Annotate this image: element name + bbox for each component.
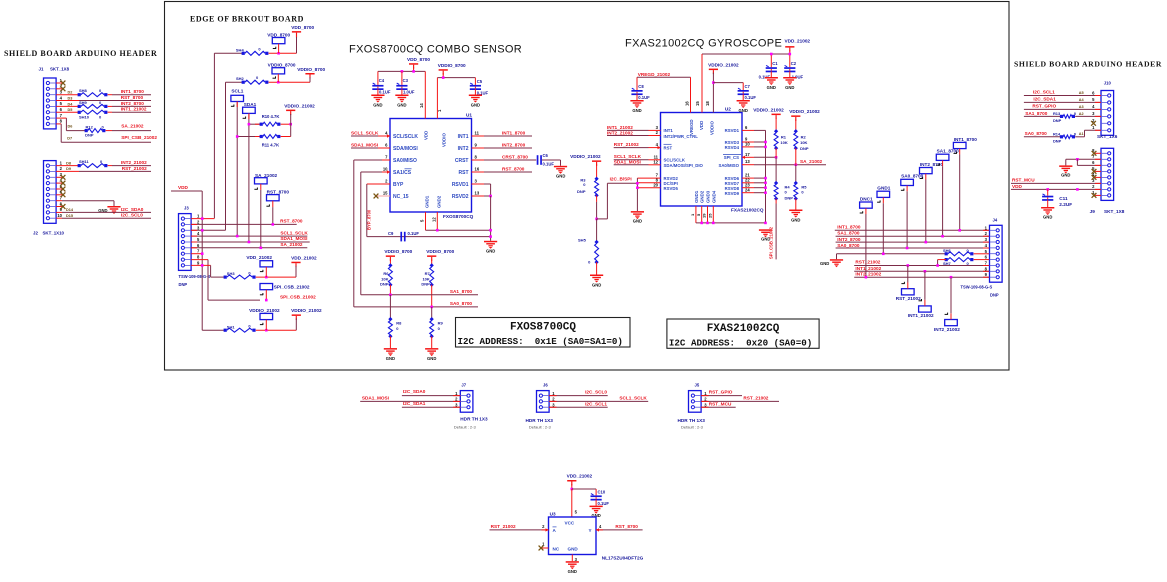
svg-text:RST_8700: RST_8700 (502, 166, 525, 171)
netbox SA_21002 (254, 173, 277, 248)
svg-text:GND: GND (486, 249, 495, 254)
power flag VDDIO_21002 R1 (753, 108, 784, 132)
svg-text:D2: D2 (68, 91, 73, 95)
J10 pin numbers (1092, 90, 1095, 130)
wire J10 pin5 I2C_SDA1 (1024, 97, 1101, 103)
svg-text:VDD_8700: VDD_8700 (407, 57, 430, 62)
svg-text:GND3: GND3 (706, 190, 711, 203)
wire SH2 left (226, 82, 244, 230)
connector J3 (179, 206, 192, 271)
ground under C11 (1041, 207, 1054, 220)
svg-text:SHIELD BOARD ARDUINO HEADER: SHIELD BOARD ARDUINO HEADER (4, 49, 157, 58)
svg-text:INT1_21002: INT1_21002 (607, 125, 633, 130)
wire RSVD collector (742, 130, 767, 223)
wire U2 pins 7 8 20 (636, 178, 660, 211)
J2 pin 4 no-connect (56, 181, 65, 186)
wire J7 pin2 SDA1_MOSI (360, 395, 460, 401)
svg-text:VDDIO: VDDIO (441, 133, 446, 147)
svg-text:SH4: SH4 (236, 47, 245, 52)
svg-text:GND: GND (568, 547, 579, 552)
power flag VDD_8700 top (407, 57, 430, 72)
svg-text:25: 25 (707, 213, 712, 218)
svg-text:SA1/CS: SA1/CS (393, 170, 412, 176)
svg-text:DNP: DNP (421, 282, 430, 287)
svg-text:DNP: DNP (380, 282, 389, 287)
svg-text:INT1_8700: INT1_8700 (502, 130, 526, 135)
wire U1 pin7 SA0 (354, 160, 390, 307)
svg-text:TSW-109-08-G-S: TSW-109-08-G-S (961, 285, 993, 290)
svg-text:RST_8700: RST_8700 (121, 95, 144, 100)
svg-text:1.0UF: 1.0UF (403, 90, 415, 95)
svg-text:DNP: DNP (1053, 118, 1062, 123)
svg-text:RSVD1: RSVD1 (452, 182, 469, 188)
J2 pin 8 no-connect (56, 204, 65, 209)
svg-text:SPI_CS: SPI_CS (724, 155, 739, 160)
resistor SH11 / J2 pin1 INT2_21002 (56, 159, 151, 168)
resistor R10 4.7K (249, 114, 291, 126)
resistor R12 DNP (85, 124, 151, 138)
svg-text:SA0_8700: SA0_8700 (450, 301, 473, 306)
svg-text:GND: GND (785, 85, 794, 90)
svg-text:SA0_8700: SA0_8700 (837, 243, 860, 248)
wire J9 pin2 VDD (1011, 184, 1101, 191)
svg-text:GND: GND (739, 108, 748, 113)
svg-text:D5: D5 (68, 108, 73, 112)
svg-text:SPI_CSB_21002: SPI_CSB_21002 (769, 226, 774, 259)
resistor SH4 (236, 46, 297, 55)
svg-text:INT2: INT2 (458, 146, 469, 152)
svg-text:R7: R7 (425, 271, 431, 276)
title right shield header (1014, 60, 1162, 69)
connector J9 (1090, 148, 1125, 214)
svg-text:INT2_21002: INT2_21002 (934, 327, 960, 332)
svg-text:J7: J7 (461, 383, 466, 388)
wire J3 pin1 VDD (191, 217, 214, 220)
svg-text:I2C ADDRESS: 0x1E (SA0=SA1=0): I2C ADDRESS: 0x1E (SA0=SA1=0) (458, 336, 623, 347)
J2 pin10 I2C_SCL0 (56, 213, 151, 219)
junction SH4 node (277, 52, 280, 55)
svg-text:SDA/MOSI/SPI_DIO: SDA/MOSI/SPI_DIO (664, 163, 704, 168)
svg-text:VCC: VCC (565, 521, 575, 526)
U1 bottom pin names (420, 195, 442, 222)
svg-text:EDGE OF BRKOUT BOARD: EDGE OF BRKOUT BOARD (190, 15, 304, 24)
netbox VDD_21002 (246, 255, 272, 277)
svg-text:VDD: VDD (1012, 184, 1023, 189)
svg-text:I2C_SCL0: I2C_SCL0 (585, 390, 607, 395)
wire VREGD (637, 77, 691, 112)
wire J3 pin6 SA_21002 (191, 242, 307, 249)
wire U3 pin3 gnd (571, 555, 573, 562)
ground under R5 (789, 210, 802, 223)
ground under C8 (630, 100, 643, 113)
svg-text:GND: GND (767, 85, 776, 90)
svg-text:FXOS8700CQ: FXOS8700CQ (443, 214, 474, 219)
svg-text:SA_21002: SA_21002 (800, 159, 823, 164)
svg-text:A5: A5 (1079, 91, 1084, 95)
svg-text:RST: RST (459, 170, 469, 176)
netbox VDDIO_8700 (268, 63, 296, 83)
wire SA1_8700 row (361, 289, 478, 296)
netbox VDD_8700 (267, 32, 290, 53)
svg-text:VDDIO_21002: VDDIO_21002 (291, 308, 322, 313)
svg-text:NC: NC (553, 547, 560, 552)
wire J7 pin1 I2C_SDA0 (402, 389, 460, 396)
wire J3 pin4 SCL1_SCLK (191, 231, 308, 238)
junction C1 rail (770, 53, 791, 56)
svg-text:DNP: DNP (85, 133, 94, 138)
svg-text:D9: D9 (66, 167, 71, 171)
svg-text:A1: A1 (1079, 132, 1084, 136)
ground at J9 (1059, 165, 1072, 177)
svg-text:GND: GND (556, 174, 565, 179)
svg-text:RST_8700: RST_8700 (280, 219, 303, 224)
svg-text:HDR TH 1X3: HDR TH 1X3 (678, 418, 706, 423)
svg-text:J5: J5 (695, 383, 700, 388)
wire J4 row3 INT2_8700 (836, 237, 990, 244)
svg-text:SPI_CSB_21002: SPI_CSB_21002 (121, 135, 157, 140)
svg-text:RSVD9: RSVD9 (725, 191, 740, 196)
ground under U1 (484, 241, 497, 254)
junction SPI_CSB node (265, 295, 316, 302)
J9 pin8 no-connect (1092, 151, 1101, 156)
svg-text:0: 0 (1074, 131, 1076, 136)
capacitor C1 0.1UF (759, 61, 779, 80)
U3 pin names (553, 521, 592, 552)
svg-text:2.2UF: 2.2UF (1059, 202, 1072, 207)
wire J7 pin3 I2C_SDA1 (402, 401, 460, 407)
wire J4 row9 INT2_21002 (854, 272, 989, 279)
svg-text:VREGD: VREGD (689, 119, 694, 135)
svg-text:J6: J6 (543, 383, 548, 388)
power flag VDDIO_21002 mid (570, 154, 601, 179)
wire J4 row7 RST_21002 (854, 260, 989, 267)
J1 pin 2 no-connect (56, 86, 65, 91)
svg-text:GND: GND (397, 103, 406, 108)
U2 top pin names (685, 101, 715, 135)
ground under U3 (566, 561, 579, 574)
breakout board outline box (165, 2, 1010, 371)
resistor SH6 0 (943, 248, 990, 256)
svg-text:I2C_SDA0: I2C_SDA0 (403, 389, 426, 394)
J9 pin4 no-connect (1092, 175, 1101, 180)
netbox SCL1 (231, 89, 244, 237)
resistor R2 10K DNP (794, 129, 809, 165)
netbox INT1_8700 (953, 137, 977, 231)
svg-text:GND: GND (373, 103, 382, 108)
wire U2 pin11 SCL1_SCLK (614, 154, 661, 160)
svg-text:VDDIO_21002: VDDIO_21002 (789, 109, 820, 114)
svg-text:GND1: GND1 (877, 186, 890, 191)
svg-text:SH9: SH9 (79, 100, 88, 105)
netbox RST_8700 (266, 189, 289, 224)
netbox SDA1 (243, 102, 257, 242)
svg-text:SCL1_SCLK: SCL1_SCLK (619, 396, 647, 401)
svg-text:I2C_SDA0: I2C_SDA0 (121, 207, 144, 212)
ground under C6 (554, 166, 567, 179)
resistor R9 0 (430, 307, 444, 348)
wire U1 pin11 INT1_8700 (472, 130, 533, 136)
svg-text:I2C_SCL0: I2C_SCL0 (121, 213, 143, 218)
svg-text:R11 4.7K: R11 4.7K (262, 142, 279, 147)
svg-text:DNP: DNP (179, 282, 188, 287)
svg-text:HDR TH 1X3: HDR TH 1X3 (526, 418, 554, 423)
U1 SA1/CS overline (405, 168, 412, 170)
wire U3 pin4 RST_8700 (596, 524, 643, 531)
svg-text:INT1_8700: INT1_8700 (954, 137, 978, 142)
wire J6 pin3 I2C_SCL1 (549, 401, 608, 407)
svg-text:10K: 10K (381, 276, 388, 281)
svg-text:SHIELD BOARD ARDUINO HEADER: SHIELD BOARD ARDUINO HEADER (1014, 60, 1162, 69)
svg-text:FXOS8700CQ: FXOS8700CQ (510, 322, 576, 334)
wire J6 pin2 SCL1_SCLK (549, 396, 648, 402)
svg-text:SH5: SH5 (578, 237, 587, 242)
svg-text:RSVD1: RSVD1 (725, 128, 740, 133)
svg-text:NL17SZU04DFT2G: NL17SZU04DFT2G (602, 556, 644, 561)
svg-text:VDD_8700: VDD_8700 (267, 32, 290, 37)
svg-text:C1: C1 (772, 61, 778, 66)
capacitor C5 0.1UF (470, 79, 489, 95)
ground under R9 (425, 348, 438, 361)
svg-text:INT2_21002: INT2_21002 (121, 160, 147, 165)
power flag VDDIO_21002 R2 (789, 109, 820, 131)
svg-text:RST_8700: RST_8700 (615, 524, 638, 529)
svg-text:SA1_8700: SA1_8700 (937, 149, 960, 154)
junction SH2 node (277, 81, 280, 84)
svg-text:RST_21002: RST_21002 (614, 142, 639, 147)
svg-text:U3: U3 (550, 512, 556, 517)
svg-text:SA0_8700: SA0_8700 (1025, 131, 1048, 136)
U3 part name (602, 556, 644, 561)
netbox GND1 (877, 186, 891, 254)
J1 pin numbers (60, 78, 63, 124)
capacitor C11 2.2UF (1042, 189, 1072, 207)
svg-text:SPI_CSB_21002: SPI_CSB_21002 (280, 295, 316, 300)
J4 pin numbers (985, 225, 988, 277)
junction VDD rail C3 (401, 70, 404, 73)
ground flag J4 (820, 259, 843, 267)
wire J5 pin3 RST_MCU (701, 401, 736, 407)
ground under R8 (384, 348, 397, 361)
svg-text:RST_8700: RST_8700 (267, 189, 290, 194)
svg-text:RSVD5: RSVD5 (664, 186, 679, 191)
svg-text:RST_21002: RST_21002 (855, 260, 880, 265)
title left shield header (4, 49, 157, 58)
svg-text:GND4: GND4 (711, 190, 716, 203)
capacitor C10 0.1UF (591, 490, 610, 507)
connector J7 (460, 383, 473, 413)
svg-text:I2C_SDA1: I2C_SDA1 (1033, 97, 1056, 102)
svg-text:VDD_8700: VDD_8700 (291, 25, 314, 30)
svg-text:I2C_SCL1: I2C_SCL1 (1033, 90, 1055, 95)
svg-text:INT1: INT1 (664, 128, 674, 133)
J10 label SKT_1X6 (1097, 134, 1118, 139)
svg-text:SDA1_MOSI: SDA1_MOSI (351, 142, 378, 147)
svg-text:GND2: GND2 (436, 195, 441, 208)
J1 pin 5 net INT2_8700 (56, 100, 151, 109)
svg-text:NC_15: NC_15 (393, 194, 409, 200)
svg-text:D6: D6 (68, 124, 73, 128)
wire J5 pin1 RST_GPIO (701, 390, 742, 396)
J7 labels (454, 417, 488, 430)
junction VDD U3 (571, 488, 574, 491)
svg-text:SCL1_SCLK: SCL1_SCLK (614, 154, 642, 159)
resistor SH1 (224, 323, 297, 332)
svg-text:INT1_8700: INT1_8700 (121, 89, 145, 94)
svg-text:15: 15 (695, 101, 700, 106)
wire U1 pin13 RSVD2 (472, 195, 492, 241)
wire U2 pin12 SDA1_MOSI (614, 160, 661, 165)
U3 pin numbers (542, 510, 602, 562)
svg-text:C5: C5 (477, 79, 483, 84)
svg-text:R1: R1 (781, 134, 787, 139)
J1 pin 4 net RST_8700 (56, 95, 151, 101)
svg-text:J10: J10 (1104, 81, 1112, 86)
svg-text:16: 16 (685, 101, 690, 106)
wire J9 pin3 RST_MCU (1011, 178, 1101, 184)
svg-text:GND: GND (568, 569, 577, 574)
svg-text:D3: D3 (68, 97, 73, 101)
svg-text:R13: R13 (1053, 111, 1061, 116)
svg-text:GND: GND (791, 217, 800, 222)
svg-text:GND: GND (471, 103, 480, 108)
netbox VDDIO_21002 bottom (249, 308, 280, 330)
wire VDD_8700 rail (378, 71, 425, 118)
svg-text:J1: J1 (39, 67, 44, 72)
info box FXAS21002CQ (667, 319, 819, 349)
resistor R1 10K (774, 129, 788, 157)
svg-text:DNC1: DNC1 (860, 196, 873, 201)
U1 part name (443, 214, 474, 219)
svg-text:VDD_21002: VDD_21002 (567, 474, 593, 479)
svg-text:RST: RST (664, 145, 673, 150)
svg-text:SA_21002: SA_21002 (121, 124, 144, 129)
svg-text:GND: GND (1043, 215, 1052, 220)
connector J1 (39, 67, 70, 129)
svg-text:U2: U2 (725, 107, 731, 112)
resistor R6 10K DNP (380, 263, 392, 295)
svg-text:VDD: VDD (699, 121, 704, 130)
net VDD label (178, 185, 189, 190)
U2 left pin names (664, 128, 704, 191)
junction VDDIO C7 (712, 81, 715, 84)
svg-text:INT2_21002: INT2_21002 (607, 131, 633, 136)
wire U1 pin3 RSVD1 (472, 184, 491, 196)
svg-text:GND: GND (820, 261, 829, 266)
junction R10 right (289, 123, 292, 126)
J1 pin 6 net INT1_21002 (56, 107, 151, 120)
svg-text:14: 14 (419, 103, 424, 108)
capacitor C2 1.0UF (784, 61, 803, 80)
J9 pin numbers (1092, 148, 1095, 195)
svg-text:0: 0 (1074, 111, 1076, 116)
resistor R3 0 DNP (577, 177, 599, 219)
wire U1 pin9 INT2_8700 (472, 142, 533, 148)
svg-text:INT1_21002: INT1_21002 (855, 266, 881, 271)
netbox INT1_21002 (908, 271, 934, 318)
svg-text:GND: GND (386, 356, 395, 361)
svg-text:INT1: INT1 (458, 134, 469, 140)
wire U1 pin16 RST_8700 (472, 166, 533, 172)
svg-text:Y: Y (589, 528, 592, 533)
svg-text:15: 15 (383, 191, 388, 196)
J1 pin 8 wire SPI_CSB_21002 (56, 124, 157, 142)
svg-text:RST_GPIO: RST_GPIO (1032, 104, 1056, 109)
svg-text:VDDIO_8700: VDDIO_8700 (426, 249, 454, 254)
resistor R4 0 DNP (774, 157, 793, 203)
wire U2 ground rail (696, 206, 767, 224)
power flag VDD_21002 U3 (567, 474, 593, 490)
svg-text:SA0/MISO: SA0/MISO (718, 163, 739, 168)
svg-text:VDD_21002: VDD_21002 (291, 256, 317, 261)
junction R11 left (236, 135, 239, 138)
svg-text:VDD: VDD (178, 185, 189, 190)
wire J3 pin5 SDA1_MOSI (191, 236, 310, 243)
wire U1 pin6 SDA1_MOSI (351, 142, 390, 148)
U1 left pin names (383, 131, 419, 200)
wire SH1 feed (202, 329, 225, 331)
svg-text:VDDIO_21002: VDDIO_21002 (753, 108, 784, 113)
U1 right pin names (452, 131, 480, 200)
junction C9 rail (489, 235, 492, 238)
J2 pin 6 no-connect (56, 192, 65, 197)
svg-text:C8: C8 (638, 84, 644, 89)
wire J4 row4 SA0_8700 (836, 243, 990, 249)
svg-text:HDR TH 1X3: HDR TH 1X3 (460, 417, 488, 422)
junction I2C_B/SPI (595, 218, 598, 221)
wire J4 row8 INT1_21002 (854, 266, 989, 273)
wire SA0/MISO pin13 SA_21002 (742, 159, 826, 166)
ground under U2 left pins (631, 211, 644, 223)
J2 pin 5 no-connect (56, 187, 65, 192)
svg-text:INT1_21002: INT1_21002 (121, 107, 147, 112)
svg-text:SA0/MISO: SA0/MISO (393, 158, 417, 164)
svg-text:RST_21002: RST_21002 (896, 296, 921, 301)
J7 pin numbers (455, 391, 458, 408)
ground under C1 (765, 77, 778, 90)
svg-text:R9: R9 (438, 320, 444, 325)
svg-text:DNP: DNP (800, 146, 809, 151)
J9 pin5 no-connect (1092, 169, 1101, 174)
U1 pin15 no-connect (374, 194, 390, 199)
svg-text:SDA1_MOSI: SDA1_MOSI (280, 236, 307, 241)
svg-text:RST_MCU: RST_MCU (709, 401, 732, 406)
svg-text:SPI_CSB_21002: SPI_CSB_21002 (274, 285, 310, 290)
svg-text:10: 10 (57, 213, 62, 218)
wire C10 branch (572, 489, 596, 495)
svg-text:A2: A2 (1079, 112, 1084, 116)
ground under C7 (737, 100, 750, 113)
svg-text:10K: 10K (422, 276, 429, 281)
U2 right pin names (718, 128, 741, 196)
svg-text:SH11: SH11 (79, 159, 90, 164)
svg-text:R2: R2 (801, 134, 807, 139)
wire J3 pin3 VDDIO_8700 (191, 229, 225, 232)
resistor R8 0 (388, 295, 402, 348)
wire SA0_8700 row (354, 301, 478, 308)
svg-text:A3: A3 (1079, 105, 1084, 109)
svg-text:0.1UF: 0.1UF (598, 501, 610, 506)
svg-text:13: 13 (475, 191, 480, 196)
svg-text:C11: C11 (1059, 196, 1068, 201)
svg-text:VDD: VDD (424, 131, 429, 140)
svg-text:16: 16 (475, 167, 480, 172)
capacitor C4 0.1UF (372, 78, 391, 95)
wire U2 pin2 INT2_21002 (607, 131, 661, 136)
U2 bottom pin names (690, 190, 716, 218)
svg-text:24: 24 (745, 188, 750, 193)
power flag VDDIO_21002 bottom (291, 308, 322, 330)
svg-text:RST_21002: RST_21002 (122, 166, 147, 171)
